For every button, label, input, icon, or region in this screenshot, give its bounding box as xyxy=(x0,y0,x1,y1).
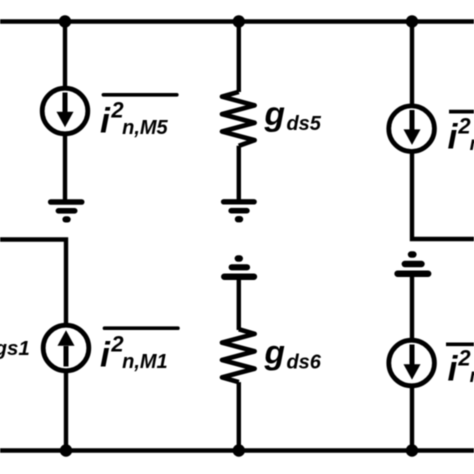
label i2 right-top overline xyxy=(449,110,474,114)
current source i2 right-bottom xyxy=(389,340,435,386)
wire top rail to current source right xyxy=(410,22,414,107)
current source i2 right-top xyxy=(389,106,435,152)
node junction dot top-left xyxy=(59,15,71,27)
resistor gds6 xyxy=(222,329,255,382)
svg-text:gs1: gs1 xyxy=(0,337,30,360)
wire resistor gds5 to ground xyxy=(237,146,241,201)
wire inverted ground to resistor gds6 xyxy=(237,277,241,330)
wire left edge to current source M1 xyxy=(0,240,66,327)
label i2 right-bottom overline xyxy=(446,342,474,346)
wire current source M5 to ground xyxy=(63,134,67,202)
wire top rail xyxy=(0,19,474,23)
node junction dot bottom-left xyxy=(60,444,72,456)
ground below gds5 xyxy=(224,202,255,219)
current source i2n,M5 xyxy=(42,88,88,134)
ground below M5 source xyxy=(51,202,82,219)
ground above gds6 (inverted) xyxy=(224,259,254,277)
current source i2n,M1 (arrow up) xyxy=(43,325,89,371)
ground above right-bottom source (inverted) xyxy=(398,255,429,274)
wire resistor gds6 to bottom rail xyxy=(237,382,241,450)
resistor gds5 xyxy=(222,92,255,146)
wire bottom rail xyxy=(0,448,474,452)
wire top rail to resistor gds5 xyxy=(237,22,241,93)
node junction dot bottom-right xyxy=(406,444,418,456)
wire top rail to current source M5 xyxy=(63,22,67,90)
label i2 n,M5 overline xyxy=(103,93,176,97)
label i2 n,M1 overline xyxy=(105,326,178,330)
node junction dot bottom-middle xyxy=(233,444,245,456)
node junction dot top-right xyxy=(406,15,418,27)
wire right-bottom source to bottom rail xyxy=(410,386,414,451)
wire inverted ground to right-bottom source xyxy=(410,274,414,342)
wire right-top source down and out right edge xyxy=(412,151,474,239)
wire current source M1 to bottom rail xyxy=(64,371,68,451)
node junction dot top-middle xyxy=(233,15,245,27)
